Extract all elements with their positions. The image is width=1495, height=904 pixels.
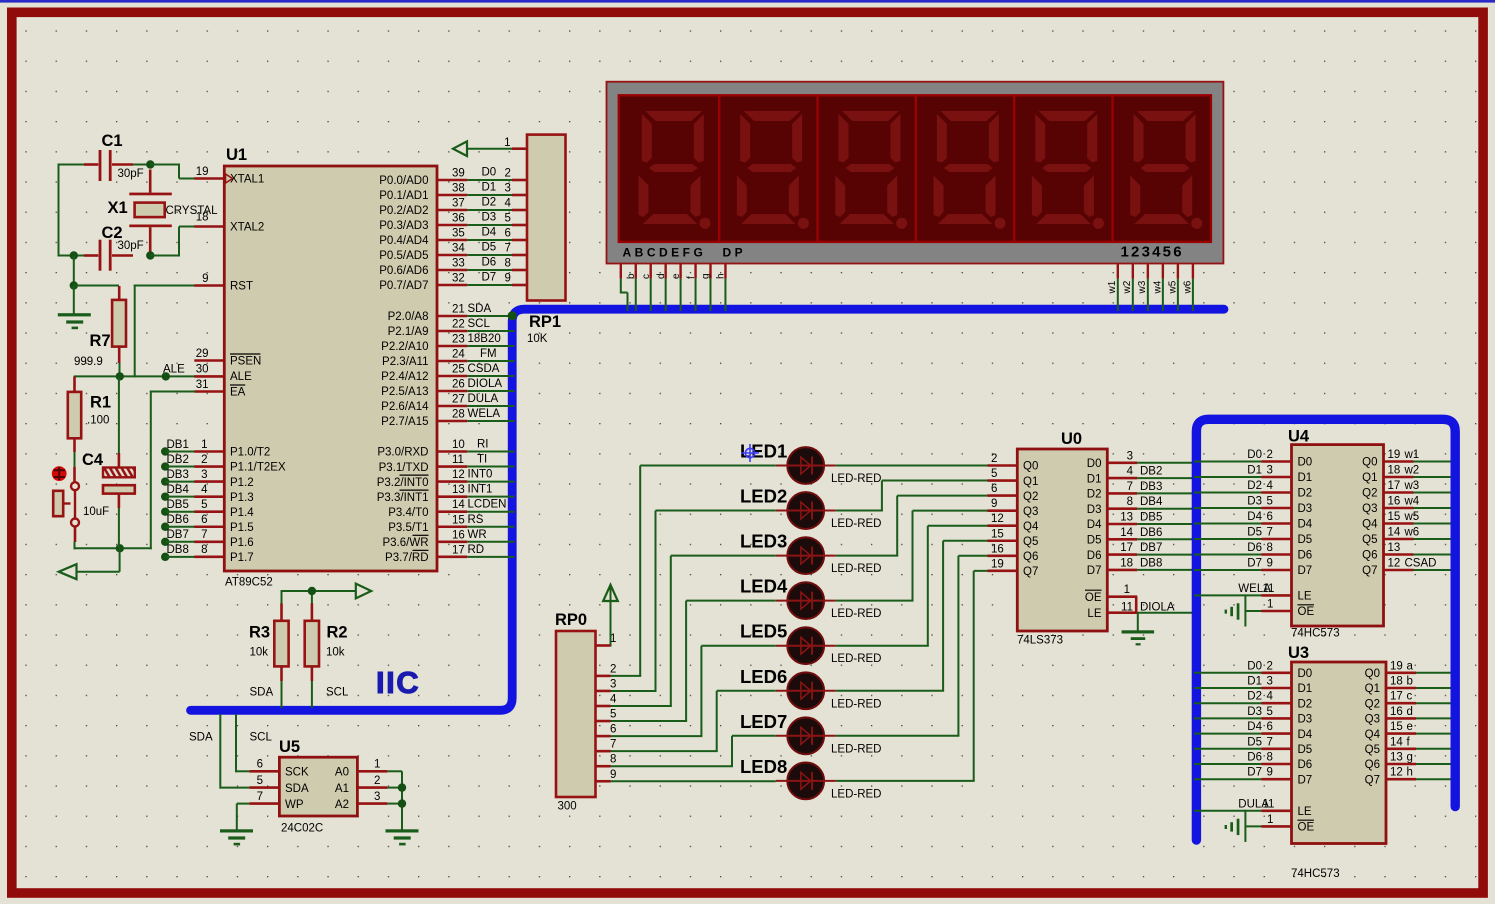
svg-text:1: 1 [374,759,380,771]
wire SDA drop [220,714,249,789]
pin number 6 [1267,511,1273,523]
svg-text:D6: D6 [1298,759,1313,771]
pin stub U0 D5 pin 14 [1107,538,1137,541]
svg-text:1: 1 [504,137,510,149]
display pin c [650,264,652,312]
label DIOLA net [1140,602,1175,614]
svg-text:10: 10 [452,439,465,451]
svg-text:3: 3 [1127,450,1133,462]
pin number 19 [1388,449,1401,461]
svg-text:13: 13 [1390,752,1403,764]
svg-text:RP1: RP1 [529,313,561,331]
label D3 left of U4 [1247,496,1262,508]
pin stub U4 D0 pin 2 [1262,460,1292,463]
pin stub U0 Q0 pin 2 [988,464,1018,467]
svg-text:g: g [701,273,712,279]
svg-text:Q3: Q3 [1362,503,1377,515]
pin stub RST pin 9 [194,284,224,287]
svg-text:74LS373: 74LS373 [1017,635,1063,647]
junction A1 [398,783,406,791]
pin number 39 [452,168,465,180]
svg-text:A1: A1 [335,783,349,795]
svg-text:DB7: DB7 [1140,542,1162,554]
svg-text:1: 1 [610,633,616,645]
label LED5 [740,621,787,642]
svg-text:7: 7 [257,791,263,803]
label D3 left of U3 [1247,706,1262,718]
svg-text:Q5: Q5 [1023,536,1038,548]
label X1 [108,199,128,217]
svg-text:XTAL1: XTAL1 [230,174,264,186]
svg-text:U0: U0 [1061,430,1082,448]
svg-text:6: 6 [201,514,207,526]
svg-text:LED-RED: LED-RED [831,653,881,665]
svg-text:15: 15 [991,528,1004,540]
label w1 [1404,449,1420,461]
pin stub RP0 pin 2 [596,675,611,678]
label LED3 [740,531,787,552]
label TI [477,454,487,466]
wire U3 OE tie [1245,810,1261,842]
svg-text:SCL: SCL [468,318,491,330]
pin stub U4 D2 pin 4 [1262,491,1292,494]
wire 18B20 [467,345,514,347]
svg-text:17: 17 [452,544,465,556]
pushbutton marker [52,466,67,481]
pin stub U3 Q3 pin 16 [1386,717,1416,720]
svg-text:w1: w1 [1107,280,1118,294]
svg-text:15: 15 [452,514,465,526]
junction pullup rail [308,587,316,595]
svg-text:D7: D7 [1087,565,1102,577]
svg-text:12: 12 [1390,767,1403,779]
pin number 15 [452,514,465,526]
display pin label d [656,273,667,279]
display bezel [607,82,1224,264]
svg-text:SCL: SCL [326,687,349,699]
svg-text:e: e [1407,721,1413,733]
label DIOLA [468,378,503,390]
svg-text:RST: RST [230,281,253,293]
wire bus to U3 D7 [1194,778,1262,780]
svg-text:f: f [686,276,697,279]
resistor R1 [68,376,81,467]
svg-text:c: c [1407,691,1413,703]
wire SCL drop [236,714,249,772]
label DULA [468,393,499,405]
svg-text:6: 6 [610,724,616,736]
pin stub ALE pin 30 [194,375,224,378]
svg-text:Q4: Q4 [1362,519,1378,531]
pin number 3 [374,791,380,803]
pin stub U3 Q2 pin 17 [1386,702,1416,705]
pin stub P3.3 pin 13 [437,495,467,498]
svg-text:6: 6 [505,228,511,240]
svg-text:DB3: DB3 [167,469,189,481]
display pin f [694,264,696,312]
latch U0 74LS373 body [1017,449,1107,631]
svg-text:300: 300 [558,801,577,813]
pin number u3 17 [1390,691,1403,703]
bus main blue [191,309,1225,710]
svg-text:P0.7/AD7: P0.7/AD7 [379,280,428,292]
svg-text:ABCDEFG: ABCDEFG [623,246,707,260]
pin stub U3 Q1 pin 18 [1386,687,1416,690]
wire U0 D4 to bus [1137,523,1198,525]
pin stub U0 D4 pin 13 [1107,523,1137,526]
svg-text:Q5: Q5 [1362,534,1377,546]
wire XTAL2 from node [150,227,195,256]
U4 pin names [1298,457,1379,619]
pin number 3 [1127,450,1133,462]
pin number 14 [1388,527,1401,539]
display pin w6 [1192,264,1194,312]
wire LED6 to U0 Q5 [836,541,988,691]
pin stub RP1 pin 5 [512,224,527,227]
label U5 [279,738,300,756]
svg-text:4: 4 [505,198,512,210]
wire button to bottom rail [74,542,152,550]
svg-text:2: 2 [374,775,380,787]
label DB5 right [1140,512,1162,524]
svg-text:D4: D4 [1247,511,1262,523]
pin stub P3.7 pin 17 [437,556,467,559]
pin number 22 [452,319,465,331]
pin stub U5 SCK pin 6 [249,770,279,773]
svg-text:23: 23 [452,334,465,346]
svg-text:5: 5 [610,709,616,721]
svg-text:D5: D5 [482,242,497,254]
svg-text:4: 4 [201,484,208,496]
pin stub U4 Q5 pin 14 [1384,538,1414,541]
ground symbol U5 right [386,829,419,845]
label LED4 [740,576,788,597]
pin number 34 [452,243,465,255]
wire LED5 to U0 Q4 [836,526,988,646]
pin stub RP0 pin 6 [596,735,611,738]
LED1 LED-RED diode [776,447,836,484]
label D6 left of U4 [1247,542,1262,554]
svg-text:74HC573: 74HC573 [1291,868,1340,880]
wire U4 Q7 to bus [1414,569,1451,571]
svg-text:36: 36 [452,213,465,225]
value LED-RED 8 [831,788,881,800]
svg-text:8: 8 [505,258,511,270]
wire LED4 to U0 Q3 [836,511,988,601]
display pin w2 [1132,264,1134,312]
wire XTAL1 from node [150,164,195,179]
svg-text:D4: D4 [1087,519,1102,531]
pin stub U3 D4 pin 6 [1262,732,1292,735]
wire RP0 pin7 to LED6 [611,691,776,751]
pin stub RP1 pin 6 [512,239,527,242]
svg-text:w2: w2 [1122,280,1133,294]
pin number u3 15 [1390,721,1403,733]
pin stub EA pin 31 [194,390,224,393]
svg-text:PSEN: PSEN [230,356,261,368]
svg-text:19: 19 [991,558,1004,570]
svg-text:LED1: LED1 [740,441,787,462]
svg-text:9: 9 [1267,767,1273,779]
pin stub U4 Q1 pin 18 [1384,476,1414,479]
wire bus to U3 D0 [1194,672,1262,674]
pin number 1 [201,439,207,451]
pin stub P2.3 pin 24 [437,360,467,363]
pin number rp0 9 [610,769,616,781]
wire LED7 to U0 Q6 [836,556,988,736]
label w3 [1404,480,1420,492]
pin number rp1 6 [505,228,511,240]
svg-text:D1: D1 [1247,465,1262,477]
svg-text:D7: D7 [1247,558,1262,570]
wire bus to U3 D1 [1194,687,1262,689]
svg-text:9: 9 [202,273,208,285]
wire U3 Q4 to bus [1416,733,1451,735]
pin number 7 [257,791,263,803]
svg-text:DB8: DB8 [1140,557,1162,569]
svg-text:DB5: DB5 [167,499,189,511]
svg-text:P3.3/INT1: P3.3/INT1 [377,492,429,504]
svg-text:LED-RED: LED-RED [831,743,881,755]
svg-text:DB7: DB7 [167,529,189,541]
svg-text:P2.3/A11: P2.3/A11 [382,356,428,368]
display digit 1 [639,111,711,229]
svg-text:DB5: DB5 [1140,512,1162,524]
display digit numbers 123456 [1121,244,1184,261]
pin number 13 [1120,512,1133,524]
pin stub P0.4 pin 35 [437,239,467,242]
label D5 [482,242,497,254]
wire SCL [467,330,514,332]
pin stub U0 D2 pin 7 [1107,492,1137,495]
svg-text:Q4: Q4 [1023,521,1039,533]
label LED8 [740,756,787,777]
wire SDA [467,315,514,317]
label DB8 [167,544,189,556]
pin number 2 [991,453,997,465]
svg-text:D5: D5 [1298,744,1313,756]
svg-text:D1: D1 [1298,683,1313,695]
pin number 32 [452,273,465,285]
svg-text:1: 1 [1267,599,1273,611]
pin number 16 [452,529,465,541]
pin stub U4 Q2 pin 17 [1384,491,1414,494]
svg-text:P1.2: P1.2 [230,477,254,489]
pin number 5 [1267,496,1273,508]
svg-text:11: 11 [1263,583,1275,595]
wire U3 Q1 to bus [1416,687,1451,689]
junction C2 rail left [70,251,78,259]
svg-text:D2: D2 [1087,489,1102,501]
svg-text:21: 21 [452,304,465,316]
svg-text:LE: LE [1298,806,1312,818]
pin number rp1 1 [504,137,510,149]
svg-text:CSDA: CSDA [468,363,500,375]
ground symbol U4 rotated [1225,603,1240,619]
svg-text:3: 3 [610,678,616,690]
svg-text:30: 30 [196,364,209,376]
svg-text:DP: DP [723,246,747,260]
wire LED2 to U0 Q1 [836,481,988,511]
blue top edge line [0,0,1495,3]
svg-text:ALE: ALE [163,364,185,376]
svg-text:D3: D3 [1298,714,1313,726]
pin stub U4 D4 pin 6 [1262,522,1292,525]
label D6 [482,257,497,269]
pin number u3 7 [1267,736,1273,748]
pin number u3 6 [1267,721,1273,733]
pin number 7 [201,529,207,541]
svg-text:D2: D2 [482,197,497,209]
svg-text:DIOLA: DIOLA [468,378,503,390]
label SCL pullup [326,687,349,699]
pin number u3 12 [1390,767,1403,779]
svg-text:w1: w1 [1404,449,1420,461]
pin number 21 [452,304,465,316]
value C2 30pF [118,240,144,252]
ground symbol U3 rotated [1225,819,1240,835]
pin stub RP0 pin 5 [596,720,611,723]
pin stub U3 D0 pin 2 [1262,671,1292,674]
svg-text:5: 5 [257,775,263,787]
label C4 [82,451,104,469]
svg-text:P0.1/AD1: P0.1/AD1 [379,190,428,202]
label DB6 right [1140,527,1162,539]
pin number 35 [452,228,465,240]
label RD [468,544,485,556]
wire bus to U4 D6 [1194,554,1262,556]
pin stub U0 Q5 pin 15 [988,539,1018,542]
svg-text:3: 3 [1267,676,1273,688]
svg-text:AT89C52: AT89C52 [225,577,273,589]
svg-text:2: 2 [201,454,207,466]
wire DIOLA [467,390,514,392]
svg-text:29: 29 [196,348,209,360]
svg-text:18: 18 [1390,676,1403,688]
label D4 left of U3 [1247,721,1262,733]
pin number 19 [991,558,1004,570]
wire U0 D6 to bus [1137,554,1198,556]
svg-text:P0.4/AD4: P0.4/AD4 [379,235,429,247]
wire FM [467,360,514,362]
pin number rp0 6 [610,724,616,736]
svg-text:Q4: Q4 [1365,729,1381,741]
svg-text:12: 12 [991,513,1004,525]
label IIC [376,665,420,700]
svg-text:IIC: IIC [376,665,420,700]
pin stub U3 D6 pin 8 [1262,763,1292,766]
pin stub U4 LE pin 11 [1262,594,1292,597]
svg-text:Q1: Q1 [1023,476,1038,488]
svg-text:w3: w3 [1404,480,1420,492]
label f [1407,736,1411,748]
pin stub P1.4 pin 5 [194,510,224,513]
svg-text:LED-RED: LED-RED [831,473,881,485]
wire node to RST row [70,256,119,290]
svg-text:CSAD: CSAD [1405,558,1437,570]
svg-text:33: 33 [452,258,465,270]
svg-text:D0: D0 [1298,668,1313,680]
svg-text:30pF: 30pF [118,240,144,252]
label R1 [90,394,111,412]
pin stub P1.3 pin 4 [194,495,224,498]
svg-text:D2: D2 [1298,488,1313,500]
svg-text:D6: D6 [1247,752,1262,764]
wire LCDEN [467,511,514,513]
junction crystal top [146,160,154,168]
value CRYSTAL [166,205,219,217]
svg-text:.100: .100 [87,415,109,427]
label DB7 [167,529,189,541]
svg-text:11: 11 [1121,602,1133,614]
wire U5 A-pins to ground [387,771,402,829]
label D7 left of U3 [1247,767,1262,779]
svg-text:Q6: Q6 [1365,759,1380,771]
label SDA [468,303,492,315]
pin stub U5 A1 pin 2 [357,786,387,789]
pin number 4 [1127,466,1134,478]
label R3 [249,624,270,642]
wire bus to U3 LE [1194,810,1262,812]
wire D3 [467,224,512,226]
pin stub U0 D7 pin 18 [1107,569,1137,572]
pin stub P0.1 pin 38 [437,194,467,197]
svg-text:2: 2 [1267,660,1273,672]
pin number 2 [374,775,380,787]
pin stub U0 D6 pin 17 [1107,553,1137,556]
display digit 4 [934,111,1006,229]
pin number u3 4 [1267,691,1274,703]
pin stub U5 A2 pin 3 [357,802,387,805]
label LED7 [740,711,787,732]
svg-text:INT0: INT0 [468,469,493,481]
label LED2 [740,486,787,507]
svg-text:P2.0/A8: P2.0/A8 [388,311,429,323]
wire INT0 [467,481,514,483]
wire LED3 to U0 Q2 [836,496,988,556]
pin stub U3 D1 pin 3 [1262,687,1292,690]
label INT1 [468,484,493,496]
svg-text:P1.6: P1.6 [230,537,254,549]
svg-text:WELA: WELA [468,408,501,420]
svg-text:3: 3 [505,183,511,195]
pin stub P3.6 pin 16 [437,540,467,543]
svg-text:P3.5/T1: P3.5/T1 [388,522,428,534]
svg-text:3: 3 [201,469,207,481]
crystal X1 [129,170,172,256]
pin number 14 [1120,527,1133,539]
bus right blue [1196,419,1455,840]
svg-text:P2.4/A12: P2.4/A12 [381,371,428,383]
wire LED8 to U0 Q7 [836,571,988,781]
label LED1 [740,441,787,462]
svg-text:4: 4 [610,694,617,706]
wire U4 Q2 to bus [1414,492,1451,494]
wire U3 Q0 to bus [1416,672,1451,674]
svg-text:28: 28 [452,409,465,421]
display pin label w3 [1137,280,1148,294]
pin number 33 [452,258,465,270]
svg-text:Q0: Q0 [1023,461,1038,473]
label R7 [90,332,111,350]
svg-text:5: 5 [1267,706,1273,718]
resistor R7 [112,286,126,377]
wire RI [467,451,514,453]
svg-text:Q3: Q3 [1365,714,1380,726]
label SCL [468,318,491,330]
pin number 19 [196,166,209,178]
LED4 LED-RED diode [776,582,836,619]
